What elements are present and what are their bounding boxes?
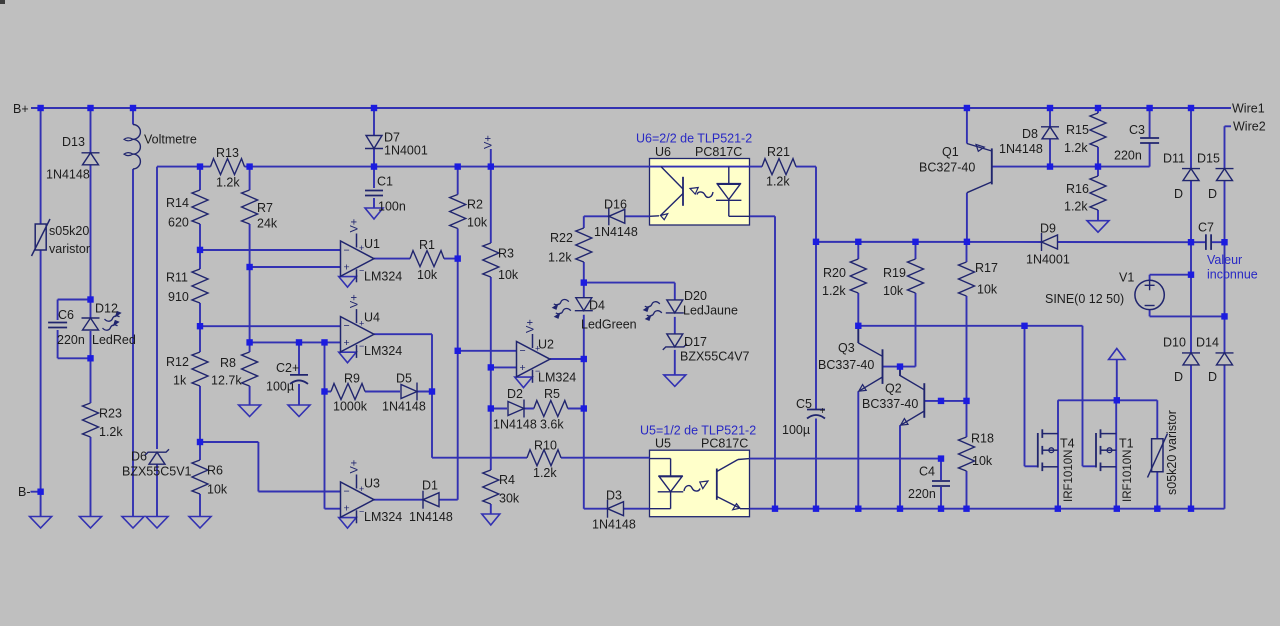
svg-text:D15: D15 <box>1197 152 1220 166</box>
svg-text:1.2k: 1.2k <box>548 251 572 265</box>
svg-text:Voltmetre: Voltmetre <box>144 133 197 147</box>
svg-text:R21: R21 <box>767 145 790 159</box>
svg-text:30k: 30k <box>499 492 520 506</box>
svg-text:100µ: 100µ <box>266 380 294 394</box>
svg-text:620: 620 <box>168 216 189 230</box>
svg-text:V1: V1 <box>1119 271 1134 285</box>
svg-text:Wire1: Wire1 <box>1232 102 1265 116</box>
svg-text:LedJaune: LedJaune <box>683 304 738 318</box>
svg-text:910: 910 <box>168 290 189 304</box>
svg-text:12.7k: 12.7k <box>211 374 242 388</box>
svg-text:inconnue: inconnue <box>1207 268 1258 282</box>
svg-text:B+: B+ <box>13 102 29 116</box>
svg-text:R15: R15 <box>1066 123 1089 137</box>
svg-text:BZX55C4V7: BZX55C4V7 <box>680 350 750 364</box>
svg-text:220n: 220n <box>1114 149 1142 163</box>
svg-text:1N4148: 1N4148 <box>382 400 426 414</box>
svg-text:V+: V+ <box>483 135 495 149</box>
svg-text:D: D <box>1208 187 1217 201</box>
svg-text:R19: R19 <box>883 266 906 280</box>
svg-text:Q2: Q2 <box>885 382 902 396</box>
svg-text:1N4148: 1N4148 <box>999 142 1043 156</box>
svg-text:1N4148: 1N4148 <box>594 225 638 239</box>
svg-text:D7: D7 <box>384 131 400 145</box>
svg-text:U4: U4 <box>364 311 380 325</box>
svg-text:1.2k: 1.2k <box>533 466 557 480</box>
svg-text:10k: 10k <box>417 268 438 282</box>
svg-text:R14: R14 <box>166 196 189 210</box>
svg-text:varistor: varistor <box>49 242 90 256</box>
svg-text:BZX55C5V1: BZX55C5V1 <box>122 465 192 479</box>
svg-text:T4: T4 <box>1060 437 1075 451</box>
svg-text:V+: V+ <box>349 294 361 308</box>
svg-text:V+: V+ <box>525 319 537 333</box>
svg-text:U6=2/2 de TLP521-2: U6=2/2 de TLP521-2 <box>636 132 752 146</box>
svg-text:D16: D16 <box>604 198 627 212</box>
svg-text:1N4001: 1N4001 <box>384 144 428 158</box>
svg-text:s05k20: s05k20 <box>49 224 89 238</box>
svg-text:−: − <box>520 345 526 357</box>
svg-text:SINE(0 12 50): SINE(0 12 50) <box>1045 292 1124 306</box>
svg-text:−: − <box>344 486 350 498</box>
svg-text:LM324: LM324 <box>364 510 402 524</box>
svg-text:D: D <box>1208 370 1217 384</box>
svg-text:T1: T1 <box>1119 437 1134 451</box>
svg-text:1.2k: 1.2k <box>216 176 240 190</box>
svg-text:R4: R4 <box>499 473 515 487</box>
svg-text:R18: R18 <box>971 432 994 446</box>
svg-text:D20: D20 <box>684 289 707 303</box>
svg-text:LedRed: LedRed <box>92 333 136 347</box>
svg-text:3.6k: 3.6k <box>540 418 564 432</box>
svg-text:1N4148: 1N4148 <box>493 418 537 432</box>
svg-text:BC327-40: BC327-40 <box>919 161 975 175</box>
svg-text:LedGreen: LedGreen <box>581 318 637 332</box>
svg-text:D9: D9 <box>1040 222 1056 236</box>
svg-text:−: − <box>344 320 350 332</box>
svg-text:IRF1010N: IRF1010N <box>1063 450 1075 502</box>
svg-text:Q1: Q1 <box>942 145 959 159</box>
svg-text:R10: R10 <box>534 439 557 453</box>
svg-text:R13: R13 <box>216 146 239 160</box>
svg-text:D10: D10 <box>1163 336 1186 350</box>
svg-text:R2: R2 <box>467 198 483 212</box>
svg-text:1.2k: 1.2k <box>766 175 790 189</box>
svg-text:R5: R5 <box>544 387 560 401</box>
svg-text:1.2k: 1.2k <box>99 425 123 439</box>
svg-text:1N4148: 1N4148 <box>46 168 90 182</box>
svg-text:10k: 10k <box>207 483 228 497</box>
svg-text:R22: R22 <box>550 231 573 245</box>
svg-text:D5: D5 <box>396 372 412 386</box>
svg-text:10k: 10k <box>972 454 993 468</box>
svg-text:D14: D14 <box>1196 336 1219 350</box>
svg-text:1N4148: 1N4148 <box>409 510 453 524</box>
svg-text:1000k: 1000k <box>333 400 368 414</box>
svg-text:1.2k: 1.2k <box>822 284 846 298</box>
svg-text:R17: R17 <box>975 261 998 275</box>
svg-text:1.2k: 1.2k <box>1064 141 1088 155</box>
svg-text:10k: 10k <box>498 268 519 282</box>
svg-text:D11: D11 <box>1163 152 1185 166</box>
svg-text:LM324: LM324 <box>364 270 402 284</box>
svg-text:10k: 10k <box>977 283 998 297</box>
svg-text:1N4001: 1N4001 <box>1026 253 1070 267</box>
svg-text:D: D <box>1174 187 1183 201</box>
svg-text:D: D <box>1174 370 1183 384</box>
svg-text:LM324: LM324 <box>538 371 576 385</box>
svg-text:100n: 100n <box>378 200 406 214</box>
svg-text:U6: U6 <box>655 145 671 159</box>
svg-text:R20: R20 <box>823 266 846 280</box>
svg-text:V+: V+ <box>349 460 361 474</box>
svg-text:D17: D17 <box>684 335 707 349</box>
svg-text:R16: R16 <box>1066 182 1089 196</box>
svg-text:B-: B- <box>18 485 31 499</box>
svg-text:C4: C4 <box>919 465 935 479</box>
svg-text:+: + <box>344 262 350 274</box>
svg-text:D8: D8 <box>1022 127 1038 141</box>
svg-text:R1: R1 <box>419 238 435 252</box>
svg-text:PC817C: PC817C <box>695 145 742 159</box>
svg-text:C5: C5 <box>796 397 812 411</box>
svg-text:1.2k: 1.2k <box>1064 200 1088 214</box>
svg-text:R7: R7 <box>257 201 273 215</box>
svg-text:LM324: LM324 <box>364 344 402 358</box>
svg-text:D6: D6 <box>131 450 147 464</box>
svg-text:+: + <box>344 337 350 349</box>
svg-text:R8: R8 <box>220 356 236 370</box>
svg-text:R3: R3 <box>498 247 514 261</box>
svg-text:1k: 1k <box>173 374 187 388</box>
svg-text:U3: U3 <box>364 477 380 491</box>
svg-text:R11: R11 <box>166 271 188 285</box>
svg-text:Q3: Q3 <box>838 341 855 355</box>
svg-text:+: + <box>820 406 826 417</box>
svg-text:C6: C6 <box>58 308 74 322</box>
svg-text:U1: U1 <box>364 237 380 251</box>
svg-text:220n: 220n <box>57 333 85 347</box>
svg-text:U5: U5 <box>655 437 671 451</box>
svg-text:C1: C1 <box>377 175 393 189</box>
svg-text:C7: C7 <box>1198 221 1214 235</box>
svg-text:D12: D12 <box>95 302 118 316</box>
svg-text:Wire2: Wire2 <box>1233 120 1266 134</box>
svg-text:V+: V+ <box>349 219 361 233</box>
svg-text:IRF1010N: IRF1010N <box>1122 450 1134 502</box>
svg-text:D3: D3 <box>606 489 622 503</box>
svg-text:R6: R6 <box>207 464 223 478</box>
svg-text:R23: R23 <box>99 407 122 421</box>
svg-text:Valeur: Valeur <box>1207 253 1242 267</box>
svg-text:10k: 10k <box>467 216 488 230</box>
svg-text:BC337-40: BC337-40 <box>818 358 874 372</box>
svg-text:U2: U2 <box>538 338 554 352</box>
svg-text:D4: D4 <box>589 299 605 313</box>
svg-text:+: + <box>344 503 350 515</box>
svg-text:D2: D2 <box>507 387 523 401</box>
svg-text:C2+: C2+ <box>276 361 299 375</box>
svg-text:C3: C3 <box>1129 123 1145 137</box>
svg-text:10k: 10k <box>883 284 904 298</box>
svg-text:24k: 24k <box>257 217 278 231</box>
svg-text:s05k20 varistor: s05k20 varistor <box>1165 410 1179 495</box>
svg-text:R9: R9 <box>344 372 360 386</box>
svg-text:R12: R12 <box>166 355 189 369</box>
svg-text:U5=1/2 de TLP521-2: U5=1/2 de TLP521-2 <box>640 424 756 438</box>
svg-text:PC817C: PC817C <box>701 437 748 451</box>
svg-text:D13: D13 <box>62 135 85 149</box>
svg-text:100µ: 100µ <box>782 423 810 437</box>
svg-text:220n: 220n <box>908 487 936 501</box>
svg-text:1N4148: 1N4148 <box>592 518 636 532</box>
svg-text:−: − <box>344 245 350 257</box>
svg-text:D1: D1 <box>422 479 438 493</box>
svg-text:+: + <box>520 362 526 374</box>
svg-text:BC337-40: BC337-40 <box>862 397 918 411</box>
